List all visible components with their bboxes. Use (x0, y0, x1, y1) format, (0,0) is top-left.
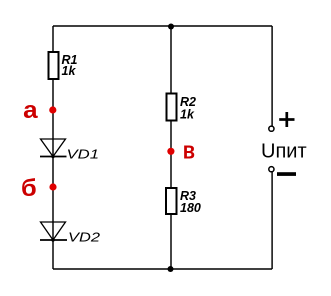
svg-text:Uпит: Uпит (261, 141, 307, 163)
svg-text:VD2: VD2 (68, 230, 101, 245)
svg-text:VD1: VD1 (67, 147, 100, 162)
svg-text:1k: 1k (180, 108, 195, 122)
svg-text:в: в (183, 138, 195, 165)
svg-text:а: а (23, 97, 38, 124)
svg-text:б: б (21, 175, 37, 202)
svg-text:180: 180 (180, 201, 201, 215)
svg-text:1k: 1k (62, 64, 77, 78)
